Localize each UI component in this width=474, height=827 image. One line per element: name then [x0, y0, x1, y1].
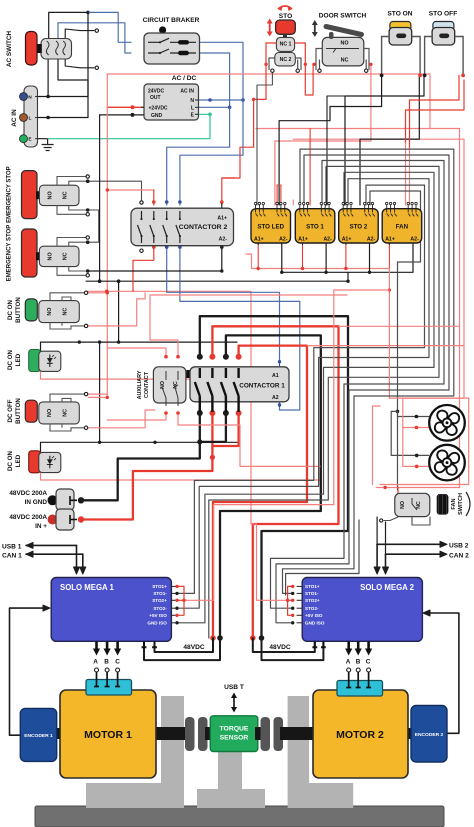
- button: emergency stop 2: [22, 229, 38, 277]
- contact: STO NC1/NC2 block: [283, 34, 287, 37]
- svg-text:A1+: A1+: [298, 237, 308, 243]
- wire: A1+ bus left end: [246, 254, 252, 269]
- svg-text:CONTACT: CONTACT: [144, 371, 150, 398]
- wire: pole4 to drive1 + (thick): [213, 346, 307, 638]
- wire: fan relay red pin a: [405, 143, 407, 205]
- svg-text:NC: NC: [62, 409, 68, 417]
- wire: gnd drop left: [99, 342, 101, 442]
- svg-text:STO: STO: [279, 13, 292, 20]
- contact pole heavy x=199.8: [195, 368, 200, 412]
- connector: AC IN socket: [24, 86, 38, 147]
- wire: relay pin drop a: [326, 96, 328, 205]
- node: drive2 +48: [250, 635, 256, 641]
- svg-text:NO: NO: [47, 308, 53, 316]
- switch: fan switch body: [395, 493, 430, 516]
- node: +24V: [131, 105, 135, 109]
- svg-text:B: B: [356, 659, 361, 666]
- node: N junction top: [86, 11, 90, 15]
- svg-text:STO1+: STO1+: [152, 584, 167, 589]
- coupling: right: [261, 717, 271, 751]
- wire: AC IN L pin: [38, 117, 89, 119]
- node: door red l: [312, 63, 315, 66]
- svg-text:A1+: A1+: [217, 216, 227, 222]
- wire: AC IN N pin: [38, 96, 89, 98]
- svg-text:FAN: FAN: [396, 224, 409, 231]
- svg-text:AC IN: AC IN: [11, 109, 18, 127]
- wire: DC OFF top2: [88, 396, 107, 398]
- connector: fan switch plug: [437, 494, 449, 514]
- wire: contactor2 to contactor1 A2: [180, 247, 300, 410]
- shaft: torque to coupling right: [255, 727, 265, 740]
- wire: aux contact top: [107, 348, 166, 357]
- drive: SOLO MEGA 2: [302, 578, 422, 642]
- node: L pin junction: [46, 116, 50, 120]
- svg-text:STO LED: STO LED: [257, 224, 284, 231]
- wire: +24V right drop: [429, 74, 431, 129]
- svg-text:CIRCUIT BRAKER: CIRCUIT BRAKER: [143, 17, 200, 24]
- svg-text:ENCODER 1: ENCODER 1: [24, 733, 53, 739]
- pin: AC IN L: [20, 114, 28, 122]
- wire: GND rail horizontal: [86, 280, 348, 282]
- wire: earth to AC/DC E pin (teal): [48, 114, 210, 138]
- lever: door switch: [329, 32, 334, 39]
- svg-text:STO 2: STO 2: [350, 224, 368, 231]
- svg-text:CONTACTOR 2: CONTACTOR 2: [179, 224, 228, 231]
- svg-text:NC: NC: [416, 501, 422, 509]
- terminal: door t1: [318, 69, 321, 72]
- svg-text:DC ON: DC ON: [7, 350, 14, 370]
- wire: relay A1+ bus: [252, 268, 390, 270]
- wire: door sw stub l: [319, 60, 321, 71]
- svg-text:NO: NO: [160, 381, 166, 389]
- wire: STO1 A1+ lead: [302, 244, 304, 269]
- svg-text:A2-: A2-: [323, 237, 332, 243]
- wire: contactor2 A1+ up: [222, 178, 235, 205]
- pins: STO 1 top: [300, 205, 302, 217]
- wire: gnd rail drop to LED rail: [118, 281, 120, 342]
- node: N: [208, 98, 212, 102]
- svg-text:ENCODER 2: ENCODER 2: [415, 732, 444, 738]
- wire: AC/DC N to contactor2 L2: [180, 100, 243, 205]
- switch: AC switch body: [41, 39, 72, 60]
- wire: mega1 red pin bus: [177, 586, 184, 615]
- wire: estop2 leads: [57, 238, 86, 247]
- wire: AC switch pole2 to breaker input 2: [58, 23, 131, 53]
- svg-text:24VDC: 24VDC: [148, 89, 165, 95]
- terminal: STO t1: [271, 69, 274, 72]
- wire: N riser: [87, 12, 89, 96]
- svg-text:FAN: FAN: [451, 498, 457, 509]
- wire: AC switch pole3 bottom stub: [65, 59, 94, 68]
- svg-text:CAN 2: CAN 2: [449, 553, 469, 560]
- node: drive2 gnd: [259, 635, 265, 641]
- wire: salmon fan loop right: [380, 398, 469, 484]
- wire: pole2 to drive2 + (thick): [212, 326, 338, 638]
- svg-text:EMERGENCY STOP: EMERGENCY STOP: [7, 166, 13, 222]
- motor: MOTOR 1: [60, 690, 156, 778]
- svg-text:LED: LED: [15, 353, 22, 366]
- svg-text:NO: NO: [47, 409, 53, 417]
- arrow: door switch vertical: [314, 24, 316, 33]
- svg-text:SWITCH: SWITCH: [458, 493, 464, 515]
- contact pole x=179.9: [176, 211, 180, 243]
- wire: fan switch bottom lead: [384, 517, 398, 521]
- arrow: into mega1 a: [74, 567, 80, 574]
- pins: STO LED bottom stubs: [258, 243, 282, 245]
- svg-text:IN +: IN +: [35, 523, 47, 530]
- led: DC ON red: [29, 451, 41, 473]
- contact: DC OFF NO/NC: [39, 402, 80, 424]
- wire: GND out: [100, 114, 144, 116]
- wire: fan red link: [389, 397, 402, 399]
- wire: STO ON right red lead: [406, 80, 465, 143]
- node: 48v gnd out: [78, 497, 84, 503]
- svg-text:TORQUE: TORQUE: [220, 726, 249, 733]
- pin: AC IN N: [20, 93, 28, 101]
- wire: aux bottom2: [178, 413, 320, 466]
- svg-text:N: N: [28, 95, 32, 101]
- svg-text:AUXILIARY: AUXILIARY: [137, 370, 143, 399]
- svg-text:NC 1: NC 1: [280, 42, 292, 48]
- wire: FAN A1+ lead: [388, 244, 390, 269]
- node: drive1 gnd: [217, 635, 223, 641]
- node: salmon rail junction: [105, 290, 109, 294]
- terminal: motor1 cyan: [86, 680, 132, 696]
- wire: can2 riser: [385, 522, 387, 554]
- pins: STO 1 bottom stubs: [303, 243, 327, 245]
- wire: thin red T 2: [307, 345, 464, 347]
- wire: salmon horizontal 2: [293, 138, 464, 140]
- arrow: into mega1 b: [80, 567, 86, 574]
- wire: AC switch pole2 bottom: [58, 59, 88, 118]
- wire: CAN 1: [26, 553, 83, 555]
- svg-text:STO OFF: STO OFF: [429, 11, 457, 18]
- wire: aux contact top2: [150, 295, 347, 357]
- svg-text:DC OFF: DC OFF: [7, 399, 14, 422]
- svg-text:A1+: A1+: [254, 237, 264, 243]
- wire: DC ON LED2 top: [41, 442, 238, 452]
- node: N pin junction: [46, 95, 50, 99]
- arrow: into mega2 right: [423, 610, 430, 616]
- wire: GND ISO mega1: [177, 172, 434, 623]
- svg-text:STO1+: STO1+: [305, 584, 320, 589]
- node: red branch: [388, 288, 391, 291]
- svg-text:NC 2: NC 2: [280, 57, 292, 63]
- wire: +24V top bus: [107, 73, 430, 75]
- svg-text:STO1-: STO1-: [305, 591, 319, 596]
- wire: fan red drop to switch: [372, 406, 374, 485]
- svg-text:OUT: OUT: [150, 95, 161, 101]
- svg-text:BUTTON: BUTTON: [15, 398, 22, 424]
- wire: salmon fan loop top: [403, 397, 469, 399]
- svg-text:AC SWITCH: AC SWITCH: [6, 31, 13, 68]
- contact pole heavy x=225.9: [221, 368, 226, 412]
- coupling: left: [185, 717, 195, 751]
- node: gnd rail junction: [117, 279, 121, 283]
- support: torque sensor pedestal: [197, 752, 265, 809]
- node: L: [228, 106, 232, 110]
- svg-text:+5V ISO: +5V ISO: [149, 613, 167, 618]
- wire: breaker out2 to AC/DC L: [198, 53, 230, 107]
- wire: STO OFF leads: [425, 37, 464, 76]
- svg-text:STO2-: STO2-: [305, 606, 319, 611]
- wire: AC switch pole1 top to junction: [49, 12, 88, 40]
- contact: estop2 NO/NC: [39, 246, 79, 266]
- svg-text:USB 1: USB 1: [2, 544, 22, 551]
- svg-text:STO ON: STO ON: [387, 11, 412, 18]
- wire: AC IN E pin to ground: [38, 138, 48, 140]
- svg-text:48VDC 200A: 48VDC 200A: [9, 514, 47, 521]
- wire: contactor2 A2- to left: [88, 246, 222, 271]
- relay: STO 1: [295, 209, 335, 243]
- wire: AC/DC L pin: [199, 106, 230, 108]
- wire: STO ON leads: [382, 37, 421, 76]
- node: E: [208, 113, 212, 117]
- wire: drive2 48V+ loop: [253, 638, 315, 652]
- wire: STO ON to chain: [279, 75, 382, 205]
- wire: thin red T to right drop: [339, 325, 460, 327]
- shaft: coupling to motor2: [280, 727, 314, 740]
- arc: fan switch wave: [466, 492, 470, 516]
- wire: STO NC1 left to contactor2 A1+: [223, 64, 266, 178]
- svg-text:NC: NC: [62, 191, 68, 199]
- terminal: door t2: [365, 69, 368, 72]
- wire: to circuit breaker input 1: [88, 12, 131, 42]
- svg-text:USB T: USB T: [224, 684, 244, 691]
- svg-text:USB 2: USB 2: [449, 543, 469, 550]
- wire: sto led right pin red b: [280, 185, 282, 205]
- node: gnd T: [197, 439, 202, 444]
- wire: relay A2- bus: [282, 244, 413, 273]
- node: N2: [241, 98, 245, 102]
- svg-text:LED: LED: [15, 454, 22, 467]
- wire: STO1- mega2: [283, 149, 454, 593]
- encoder: ENCODER 2: [411, 706, 447, 763]
- svg-text:CONTACTOR 1: CONTACTOR 1: [239, 383, 285, 390]
- wire: gnd riser from AC/DC: [99, 115, 101, 281]
- terminal: contactor2 in1 circle: [140, 201, 143, 204]
- wire: DC OFF bottom: [88, 410, 155, 428]
- svg-text:NO: NO: [47, 191, 53, 199]
- wire: +24 red mega1 feed: [184, 290, 389, 600]
- wire: DC OFF top: [88, 393, 107, 395]
- wire: AC/DC L to contactor2 L1: [167, 107, 230, 205]
- svg-text:AC IN: AC IN: [180, 89, 194, 95]
- wire: extra mega2 feeder: [286, 574, 359, 596]
- wire: door sw stub r: [365, 60, 367, 71]
- svg-text:C: C: [115, 659, 120, 666]
- wire: fan switch red lead: [376, 487, 459, 489]
- encoder: ENCODER 1: [20, 708, 56, 761]
- svg-text:GND ISO: GND ISO: [305, 621, 325, 626]
- svg-text:SOLO MEGA 2: SOLO MEGA 2: [360, 583, 415, 592]
- wire: CAN 2: [386, 553, 441, 555]
- svg-text:L: L: [29, 116, 32, 122]
- node: A1 blue: [278, 360, 281, 363]
- shaft: motor2-encoder2: [406, 728, 412, 739]
- svg-text:NO: NO: [47, 252, 53, 260]
- button: STO ON: [390, 22, 411, 31]
- wire: mega2 red pin bus: [288, 586, 293, 615]
- wire: encoder1 to mega1: [10, 608, 45, 735]
- node: fan black T: [396, 410, 400, 414]
- pins: STO 2 bottom stubs: [346, 243, 370, 245]
- switch: door switch body: [322, 37, 364, 66]
- svg-text:STO1-: STO1-: [153, 591, 167, 596]
- svg-text:NO: NO: [400, 501, 406, 509]
- svg-text:A: A: [346, 659, 351, 666]
- ground symbol: [42, 139, 54, 151]
- wire: spare to mega1 area: [209, 166, 439, 638]
- svg-text:NC: NC: [62, 308, 68, 316]
- connector: 48V GND: [48, 495, 58, 505]
- node: drive1 +48: [210, 635, 216, 641]
- svg-text:CAN 1: CAN 1: [2, 553, 22, 560]
- wire: fan1 black: [398, 411, 429, 416]
- wire: STO2 A2- lead: [369, 244, 371, 273]
- wire: fan relay red pin b: [409, 148, 411, 205]
- wire: STO NC1 to door switch link: [305, 64, 313, 95]
- arrow: USB T vertical: [233, 697, 235, 708]
- wire: DC ON LED2 bottom: [41, 466, 321, 480]
- pins: mega1 bottom: [95, 641, 98, 650]
- svg-text:IN GND: IN GND: [25, 499, 48, 506]
- wire: DC ON btn top to +24V: [88, 292, 107, 294]
- wire: relay sto1 red drop: [309, 129, 311, 206]
- node: c2 red top: [152, 200, 156, 204]
- wire: STO NC1 terminal stub r: [297, 60, 299, 71]
- terminal: motor2 cyan: [337, 681, 383, 697]
- svg-text:A2-: A2-: [410, 237, 419, 243]
- base plate: [35, 806, 444, 827]
- svg-text:DC ON: DC ON: [7, 451, 14, 471]
- shaft: motor1-encoder: [55, 728, 61, 739]
- wire: AC/DC N pin: [199, 99, 243, 101]
- wire: estop1 NC to contactor2: [88, 181, 142, 200]
- wire: right red drop to fan loop: [403, 139, 464, 398]
- wire: STO1- mega1: [177, 185, 425, 593]
- wire: STO OFF left lead: [345, 75, 424, 205]
- svg-text:BUTTON: BUTTON: [15, 297, 22, 323]
- svg-text:C: C: [366, 659, 371, 666]
- wire: AC switch pole1 bottom to N: [47, 59, 49, 97]
- svg-text:B: B: [104, 659, 109, 666]
- button: emergency stop 1: [22, 171, 38, 219]
- node: sto red junction: [252, 98, 255, 101]
- svg-text:+24VDC: +24VDC: [149, 105, 168, 111]
- wire: DC OFF leads: [50, 394, 84, 402]
- contact: auxiliary block: [153, 367, 186, 403]
- svg-text:SENSOR: SENSOR: [220, 735, 249, 742]
- wire: contactor2 in2 red: [107, 189, 154, 191]
- wire: fan switch lead2: [412, 517, 430, 525]
- contact: estop1 NO/NC: [39, 185, 79, 205]
- svg-text:DC ON: DC ON: [7, 300, 14, 320]
- svg-text:STO 1: STO 1: [306, 224, 324, 231]
- contact pole x=153.8: [150, 211, 154, 243]
- node: STO OFF right: [461, 74, 465, 78]
- wire: DC ON LED top to rail: [41, 342, 238, 351]
- terminal: STO t2: [296, 69, 299, 72]
- node: sto red l: [264, 63, 267, 66]
- wire: STO2- mega1: [177, 179, 429, 609]
- arrow: STO vertical (red): [269, 22, 271, 33]
- wire: fan1 red: [403, 398, 429, 427]
- svg-text:SOLO MEGA 1: SOLO MEGA 1: [60, 583, 115, 592]
- wire: 48V GND feed (thick): [81, 413, 200, 500]
- contact pole heavy x=212.4: [207, 368, 212, 412]
- relay: STO LED: [251, 209, 291, 243]
- wire: aux contact bottom: [107, 413, 166, 420]
- support: right pedestal: [288, 696, 354, 808]
- svg-text:A1+: A1+: [385, 237, 395, 243]
- drive: SOLO MEGA 1: [51, 578, 171, 642]
- contact symbol door switch: [326, 49, 359, 53]
- pins: mega2 bottom: [347, 641, 350, 650]
- wire: pole1 to drive2 gnd (thick): [200, 316, 348, 638]
- svg-text:NO: NO: [340, 41, 348, 47]
- wire: DC ON LED bottom: [41, 371, 238, 379]
- arrow: STO rotate (red curved): [278, 6, 292, 9]
- node: STO ON left: [380, 74, 384, 78]
- terminal: open circle pole3: [95, 29, 98, 32]
- wire: pole3 to drive1 gnd (thick): [220, 335, 321, 638]
- wire: + link pole4: [212, 413, 238, 446]
- terminal: open circle pole3 bottom: [95, 66, 98, 69]
- arrow: into mega1 left: [43, 605, 50, 611]
- relay: STO 2: [339, 209, 379, 243]
- button: AC switch red handle: [37, 44, 42, 53]
- pins: FAN bottom stubs: [389, 243, 413, 245]
- svg-text:L: L: [191, 105, 194, 111]
- pins: FAN top: [387, 205, 389, 217]
- wire: sto nc2 to sto led pin: [257, 72, 272, 205]
- svg-text:48VDC 200A: 48VDC 200A: [9, 490, 47, 497]
- wire: AC switch pole3 top stub: [65, 29, 94, 40]
- shaft: motor1 to coupling: [156, 727, 190, 740]
- wire: DC ON btn lower: [88, 293, 145, 326]
- wire: fan2 red: [403, 428, 429, 467]
- pins: STO 2 top: [343, 205, 345, 217]
- breaker: circuit breaker body: [159, 26, 166, 33]
- fan at 447,422.8: [429, 405, 465, 441]
- wire: salmon rail to mega2 red: [86, 291, 251, 524]
- wire: red mega2 feed: [251, 524, 288, 600]
- wire: salmon horizontal 1 + right drop: [256, 129, 460, 488]
- wire: door switch terminals: [316, 49, 369, 71]
- wire: contactor2 out red: [133, 247, 154, 291]
- wire: STO1 A2- lead: [325, 244, 327, 273]
- wire: gnd link pole3: [200, 413, 226, 442]
- node: +48 T: [210, 455, 215, 460]
- terminal: contactor2 out1: [140, 249, 143, 252]
- contactor: CONTACTOR 1 body: [187, 370, 192, 378]
- pins: STO LED top: [256, 205, 258, 217]
- svg-text:GND ISO: GND ISO: [147, 621, 167, 626]
- wire: estop1 leads: [57, 177, 86, 186]
- svg-text:A2-: A2-: [367, 237, 376, 243]
- wire: drive1 48V+ loop: [155, 638, 214, 652]
- button: STO red: [276, 20, 296, 34]
- node: STO ON right: [418, 74, 422, 78]
- svg-text:STO2+: STO2+: [152, 598, 167, 603]
- wire: extra mega2 feeder v: [358, 520, 360, 574]
- wire: STO2- mega2: [271, 161, 445, 609]
- svg-text:48VDC: 48VDC: [269, 644, 290, 651]
- contact pole heavy x=238.6: [234, 368, 239, 412]
- svg-text:AC / DC: AC / DC: [172, 75, 197, 82]
- wire: fan black to fan switch: [397, 411, 399, 490]
